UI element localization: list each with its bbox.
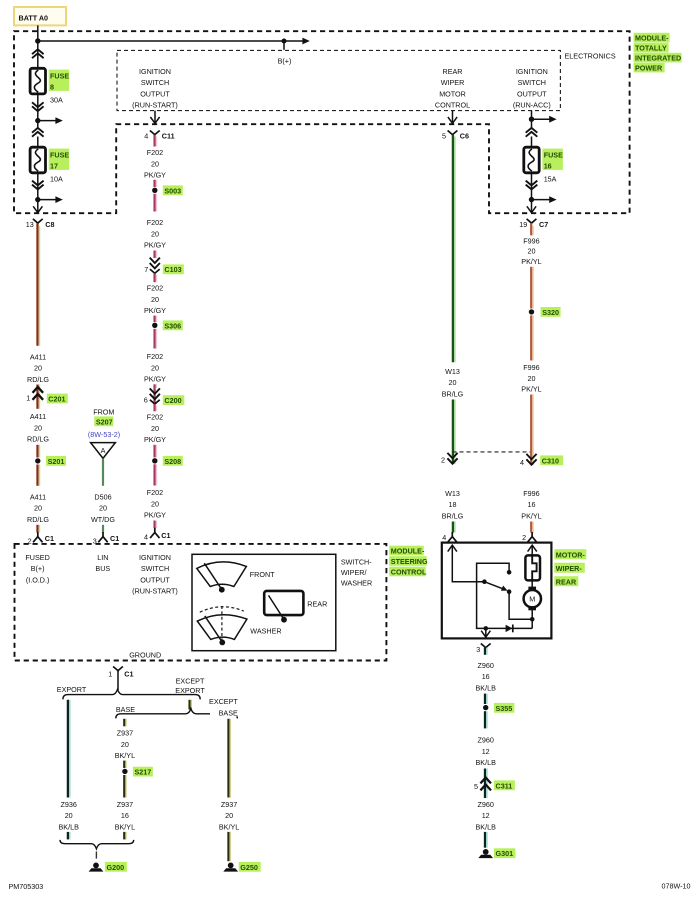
wire fuse 16 branch right bbox=[532, 199, 550, 201]
connector C11 bbox=[150, 131, 175, 141]
wire fuse 17 feed bbox=[37, 137, 39, 149]
wire W13 to motor pin 4 bbox=[453, 522, 455, 533]
wire Z937 except-export drop bbox=[190, 700, 192, 710]
svg-text:B(+): B(+) bbox=[31, 564, 45, 573]
wire fuse 16 output bbox=[531, 173, 533, 214]
svg-text:RD/LG: RD/LG bbox=[27, 435, 49, 444]
arrow motor pin 2 entry bbox=[528, 545, 537, 551]
wire fuse 8 output bbox=[37, 94, 39, 129]
svg-text:IGNITION: IGNITION bbox=[516, 67, 548, 76]
connector C8 bbox=[33, 219, 55, 229]
wire D506 WT/DG bbox=[102, 458, 104, 485]
svg-text:REAR: REAR bbox=[443, 67, 463, 76]
svg-text:20: 20 bbox=[34, 423, 42, 432]
wire Z937 base leg upper bbox=[124, 719, 126, 727]
wire Z936 stub to brace bbox=[68, 832, 70, 840]
svg-text:OUTPUT: OUTPUT bbox=[140, 575, 170, 584]
connector C310 chevrons on W13 pin 2 bbox=[447, 453, 457, 464]
svg-text:G200: G200 bbox=[107, 863, 125, 872]
wire diode to motor junction bbox=[531, 610, 533, 628]
wire from BATT A0 bbox=[37, 25, 39, 49]
wire F996 PK/YL upper bbox=[531, 223, 533, 235]
svg-text:BR/LG: BR/LG bbox=[442, 511, 464, 520]
wire lower contact to motor junction bbox=[509, 592, 532, 620]
wire label D506 20 WT/DG bbox=[91, 492, 115, 524]
svg-text:(RUN-ACC): (RUN-ACC) bbox=[513, 101, 551, 110]
label REAR WIPER MOTOR CONTROL bbox=[435, 67, 470, 110]
connector chevrons above fuse 16 bbox=[526, 128, 538, 137]
svg-text:Z936: Z936 bbox=[61, 800, 77, 809]
svg-text:INTEGRATED: INTEGRATED bbox=[635, 53, 681, 62]
wire label A411 20 RD/LG bbox=[27, 352, 49, 384]
connector C310 dashed halves line bbox=[453, 451, 532, 453]
pin label LIN BUS bbox=[95, 553, 110, 573]
svg-text:WIPER/: WIPER/ bbox=[341, 568, 367, 577]
svg-text:20: 20 bbox=[121, 740, 129, 749]
wire Z937 except-base leg bbox=[229, 719, 231, 798]
svg-text:OUTPUT: OUTPUT bbox=[140, 90, 170, 99]
svg-text:F202: F202 bbox=[147, 488, 163, 497]
module label MODULE-TOTALLY INTEGRATED POWER bbox=[634, 33, 682, 73]
svg-text:ELECTRONICS: ELECTRONICS bbox=[565, 52, 616, 61]
wire A411 to splice bbox=[38, 445, 40, 458]
svg-text:30A: 30A bbox=[50, 95, 63, 104]
connector motor pin 3 bbox=[481, 644, 491, 648]
arrow motor pin 4 entry bbox=[448, 545, 457, 551]
wire thermal element to motor bbox=[531, 580, 533, 587]
svg-text:4: 4 bbox=[442, 533, 446, 542]
wire F996 to motor pin 2 bbox=[531, 522, 533, 533]
wire upper contact to ground branch bbox=[477, 563, 510, 628]
thermal protector element bbox=[525, 555, 540, 580]
svg-text:18: 18 bbox=[449, 500, 457, 509]
ground G301 bbox=[478, 848, 515, 858]
wire label Z960 16 BK/LB bbox=[476, 661, 497, 693]
splice S355 bbox=[483, 703, 514, 713]
svg-text:W13: W13 bbox=[445, 489, 460, 498]
svg-text:PK/GY: PK/GY bbox=[144, 435, 166, 444]
svg-text:BATT A0: BATT A0 bbox=[19, 14, 49, 23]
svg-text:1: 1 bbox=[108, 669, 112, 678]
wire Z937 below S217 bbox=[124, 775, 126, 798]
svg-text:F996: F996 bbox=[523, 489, 539, 498]
wire W13 BR/LG upper bbox=[453, 135, 455, 362]
svg-text:S003: S003 bbox=[164, 186, 181, 195]
svg-text:S217: S217 bbox=[135, 768, 152, 777]
node switch contact upper bbox=[507, 570, 512, 575]
wire label W13 18 BR/LG bbox=[442, 489, 464, 521]
splice S320 bbox=[529, 307, 561, 317]
svg-text:D506: D506 bbox=[94, 492, 111, 501]
svg-text:SWITCH-: SWITCH- bbox=[341, 557, 372, 566]
wire label F996 16 PK/YL bbox=[521, 489, 541, 521]
label FROM S207 bbox=[88, 407, 120, 439]
wire F202 below C200 bbox=[155, 404, 157, 411]
wire Z937 to ground G250 bbox=[229, 832, 231, 861]
wire F202 to splice S306 bbox=[155, 316, 157, 322]
arrow B(+) bus continuation bbox=[302, 38, 309, 45]
arrow module exit pin 13 bbox=[33, 206, 42, 212]
svg-text:EXPORT: EXPORT bbox=[175, 686, 205, 695]
wire label F202 20 PK/GY 2 bbox=[144, 218, 166, 250]
wire label Z960 12 BK/LB mid bbox=[476, 736, 497, 768]
svg-text:RD/LG: RD/LG bbox=[27, 515, 49, 524]
washer icon spray arc (dashed) bbox=[200, 607, 244, 612]
svg-text:SWITCH: SWITCH bbox=[141, 564, 169, 573]
inner electronics dashed box bbox=[117, 50, 560, 110]
label EXCEPT EXPORT bbox=[175, 676, 205, 695]
module label MOTOR-WIPER-REAR bbox=[554, 549, 586, 586]
svg-text:C311: C311 bbox=[496, 781, 513, 790]
svg-text:BK/LB: BK/LB bbox=[476, 758, 497, 767]
svg-text:Z960: Z960 bbox=[478, 800, 494, 809]
connector chevrons below fuse 16 bbox=[526, 181, 538, 190]
node ground branch junction bbox=[484, 626, 489, 631]
wire Z960 to splice S355 bbox=[485, 694, 487, 704]
svg-text:S355: S355 bbox=[496, 704, 513, 713]
svg-text:2: 2 bbox=[441, 455, 445, 464]
svg-text:(8W-53-2): (8W-53-2) bbox=[88, 430, 120, 439]
wire F202 into C200 bbox=[155, 384, 157, 404]
svg-text:16: 16 bbox=[121, 811, 129, 820]
arrow run-acc branch bbox=[549, 116, 556, 123]
svg-text:C1: C1 bbox=[161, 531, 170, 540]
wire run-acc branch right bbox=[532, 118, 550, 120]
svg-text:GROUND: GROUND bbox=[129, 650, 161, 659]
svg-text:FUSE: FUSE bbox=[50, 150, 69, 159]
wire label F996 20 PK/YL 2 bbox=[521, 363, 541, 394]
svg-text:20: 20 bbox=[34, 504, 42, 513]
svg-text:4: 4 bbox=[520, 458, 524, 467]
svg-text:C7: C7 bbox=[539, 220, 548, 229]
svg-text:WIPER: WIPER bbox=[441, 78, 465, 87]
svg-text:A411: A411 bbox=[30, 492, 46, 501]
svg-text:PM705303: PM705303 bbox=[9, 882, 44, 891]
svg-text:S201: S201 bbox=[48, 457, 65, 466]
svg-text:BUS: BUS bbox=[95, 564, 110, 573]
svg-text:C8: C8 bbox=[45, 220, 54, 229]
svg-text:POWER: POWER bbox=[635, 63, 663, 72]
svg-text:CONTROL: CONTROL bbox=[435, 101, 470, 110]
svg-text:REAR: REAR bbox=[307, 599, 327, 608]
label EXCEPT BASE (with mask over brace end) bbox=[209, 697, 238, 717]
module box - totally integrated power (dashed outline with notch) bbox=[14, 31, 630, 213]
wire A411 through C201 bbox=[38, 385, 40, 409]
svg-text:20: 20 bbox=[528, 374, 536, 383]
label IGNITION SWITCH OUTPUT (RUN-ACC) bbox=[513, 67, 551, 110]
svg-text:B(+): B(+) bbox=[278, 56, 292, 65]
svg-text:5: 5 bbox=[442, 131, 446, 140]
svg-text:MODULE-: MODULE- bbox=[391, 546, 425, 555]
connector label C311 bbox=[494, 780, 515, 790]
connector C311 chevrons bbox=[480, 778, 491, 791]
wire label Z936 20 BK/LB bbox=[59, 800, 80, 832]
svg-text:16: 16 bbox=[528, 500, 536, 509]
pin label FUSED B(+) (I.O.D.) bbox=[25, 553, 49, 585]
connector C6 bbox=[448, 131, 469, 141]
arrow module exit pin 19 bbox=[527, 206, 536, 212]
wire branch right bbox=[38, 120, 56, 122]
svg-text:20: 20 bbox=[151, 295, 159, 304]
wire label Z937 16 BK/YL bbox=[115, 800, 135, 832]
svg-text:IGNITION: IGNITION bbox=[139, 553, 171, 562]
arrow branch right bbox=[55, 117, 62, 124]
svg-text:BK/YL: BK/YL bbox=[115, 823, 135, 832]
wire fuse 16 feed bbox=[531, 137, 533, 149]
wire ground branch exit bbox=[485, 628, 487, 637]
svg-text:FROM: FROM bbox=[93, 407, 114, 416]
wire label Z937 20 BK/YL except-base bbox=[219, 800, 239, 832]
connector chevrons below fuse 17 bbox=[32, 181, 44, 190]
label SWITCH-WIPER/WASHER bbox=[341, 557, 372, 587]
svg-text:(RUN-START): (RUN-START) bbox=[132, 101, 178, 110]
node motor bottom junction bbox=[530, 617, 535, 622]
svg-text:EXCEPT: EXCEPT bbox=[176, 676, 205, 685]
front wiper icon bbox=[197, 562, 247, 593]
rear wiper icon bbox=[264, 591, 303, 623]
svg-text:PK/GY: PK/GY bbox=[144, 306, 166, 315]
pin label IGNITION SWITCH OUTPUT (RUN-START) bbox=[132, 553, 178, 596]
svg-text:WASHER: WASHER bbox=[250, 627, 281, 636]
svg-text:SWITCH: SWITCH bbox=[141, 78, 169, 87]
svg-text:2: 2 bbox=[522, 533, 526, 542]
svg-text:BK/YL: BK/YL bbox=[219, 823, 239, 832]
connector C200 socket bbox=[150, 400, 160, 404]
wire Z960 BK/LB from motor bbox=[485, 648, 487, 655]
brace base/except-base split bbox=[116, 709, 238, 719]
svg-text:3: 3 bbox=[476, 645, 480, 654]
wire branch right lower bbox=[38, 199, 56, 201]
arrow fuse 16 branch bbox=[549, 196, 556, 203]
svg-text:PK/GY: PK/GY bbox=[144, 375, 166, 384]
svg-text:STEERING: STEERING bbox=[391, 557, 428, 566]
connector C310 chevrons on F996 pin 4 bbox=[526, 454, 536, 465]
svg-text:F996: F996 bbox=[523, 363, 539, 372]
node fuse 16 branch bbox=[529, 197, 534, 202]
node B(+) label tap bbox=[282, 39, 287, 44]
wire F202 below S003 bbox=[155, 194, 157, 212]
node run-acc branch bbox=[529, 117, 534, 122]
svg-text:S306: S306 bbox=[164, 321, 181, 330]
svg-text:PK/GY: PK/GY bbox=[144, 171, 166, 180]
svg-text:Z960: Z960 bbox=[478, 661, 494, 670]
svg-text:(I.O.D.): (I.O.D.) bbox=[26, 575, 50, 584]
wire F202 below C103 bbox=[155, 273, 157, 282]
connector C103 chevrons bbox=[150, 258, 160, 269]
svg-text:F996: F996 bbox=[523, 236, 539, 245]
splice S003 bbox=[152, 185, 183, 195]
wire F202 into C103 bbox=[155, 251, 157, 259]
svg-text:C1: C1 bbox=[110, 534, 119, 543]
connector label C201 bbox=[47, 394, 68, 404]
svg-text:Z937: Z937 bbox=[117, 729, 133, 738]
svg-text:17: 17 bbox=[50, 162, 58, 171]
fuse 8 bbox=[30, 68, 45, 94]
svg-text:LIN: LIN bbox=[97, 553, 108, 562]
wire run-acc output stub bbox=[531, 111, 533, 129]
svg-text:WASHER: WASHER bbox=[341, 578, 372, 587]
svg-text:EXPORT: EXPORT bbox=[57, 685, 87, 694]
wire B(+) bus bbox=[38, 40, 303, 42]
fuse 17 bbox=[30, 147, 45, 173]
splice S306 bbox=[152, 320, 183, 330]
node switch pivot bbox=[482, 579, 487, 584]
fuse 16 value label bbox=[542, 149, 563, 184]
svg-text:WT/DG: WT/DG bbox=[91, 515, 115, 524]
wire fuse 8 feed bbox=[37, 49, 39, 69]
washer wiper icon bbox=[197, 615, 247, 646]
svg-text:20: 20 bbox=[151, 499, 159, 508]
connector label C103 bbox=[163, 264, 184, 274]
connector C1 pin 3 bbox=[93, 532, 119, 545]
connector label C200 bbox=[163, 395, 185, 405]
svg-text:OUTPUT: OUTPUT bbox=[517, 90, 547, 99]
svg-text:IGNITION: IGNITION bbox=[139, 67, 171, 76]
wire run-start output to C11 bbox=[154, 111, 156, 124]
wire Z960 through C311 bbox=[485, 769, 487, 799]
svg-text:20: 20 bbox=[528, 247, 536, 256]
wire label F202 20 PK/GY 1 bbox=[144, 148, 166, 180]
washer icon dashed center line bbox=[221, 606, 223, 640]
svg-text:FUSE: FUSE bbox=[50, 71, 69, 80]
node at B(+) bus tap bbox=[35, 38, 40, 43]
wire C1 ground stem bbox=[117, 671, 119, 691]
svg-text:C1: C1 bbox=[124, 669, 133, 678]
svg-text:8: 8 bbox=[50, 83, 54, 92]
svg-text:FUSED: FUSED bbox=[25, 553, 49, 562]
connector C1 pin 4 bbox=[144, 528, 171, 542]
svg-text:PK/YL: PK/YL bbox=[521, 511, 541, 520]
svg-text:Z960: Z960 bbox=[478, 736, 494, 745]
svg-text:20: 20 bbox=[225, 811, 233, 820]
arrow into C6 bbox=[448, 117, 457, 123]
arrow motor pin 3 exit bbox=[481, 631, 490, 637]
wire Z937 stub to brace bbox=[124, 832, 126, 840]
connector C201 chevrons bbox=[33, 387, 44, 400]
svg-text:C200: C200 bbox=[164, 396, 181, 405]
svg-text:MOTOR-: MOTOR- bbox=[556, 550, 586, 559]
svg-text:F202: F202 bbox=[147, 352, 163, 361]
diode bbox=[506, 625, 513, 633]
svg-text:TOTALLY: TOTALLY bbox=[635, 43, 667, 52]
wire F202 to splice S003 bbox=[155, 180, 157, 187]
svg-text:C1: C1 bbox=[45, 534, 54, 543]
svg-text:REAR: REAR bbox=[556, 577, 577, 586]
svg-text:(RUN-START): (RUN-START) bbox=[132, 587, 178, 596]
fuse 17 value label bbox=[49, 149, 70, 184]
svg-text:BASE: BASE bbox=[116, 705, 135, 714]
svg-text:16: 16 bbox=[544, 162, 552, 171]
wire D506 to C1 bbox=[102, 525, 104, 533]
ground G250 bbox=[223, 862, 260, 872]
svg-text:Z937: Z937 bbox=[221, 800, 237, 809]
svg-text:W13: W13 bbox=[445, 367, 460, 376]
connector chevrons below fuse 8 bbox=[32, 102, 44, 111]
svg-text:G250: G250 bbox=[240, 863, 258, 872]
wire W13 into C310 bbox=[453, 400, 455, 464]
svg-text:19: 19 bbox=[519, 220, 527, 229]
svg-text:C103: C103 bbox=[164, 265, 181, 274]
svg-text:SWITCH: SWITCH bbox=[518, 78, 546, 87]
arrow branch right lower bbox=[55, 196, 62, 203]
svg-text:G301: G301 bbox=[496, 849, 514, 858]
wire label F996 20 PK/YL 1 bbox=[521, 236, 541, 266]
svg-text:1: 1 bbox=[26, 394, 30, 403]
svg-text:C11: C11 bbox=[162, 131, 175, 140]
svg-text:F202: F202 bbox=[147, 284, 163, 293]
node switch contact lower bbox=[507, 589, 512, 594]
wire rear wiper motor control to C6 bbox=[452, 111, 454, 124]
off-page reference triangle A from S207 bbox=[91, 443, 116, 459]
svg-text:12: 12 bbox=[482, 747, 490, 756]
connector C1 ground pin bbox=[113, 667, 133, 679]
ground G200 bbox=[89, 862, 127, 872]
connector C103 socket bbox=[150, 269, 160, 273]
splice S217 bbox=[122, 767, 153, 777]
wire Z960 below S355 bbox=[485, 711, 487, 728]
svg-text:MODULE-: MODULE- bbox=[635, 33, 669, 42]
connector C1 pin 2 bbox=[28, 532, 54, 545]
svg-text:PK/GY: PK/GY bbox=[144, 511, 166, 520]
svg-text:C201: C201 bbox=[48, 394, 65, 403]
svg-text:RD/LG: RD/LG bbox=[27, 375, 49, 384]
wire label Z960 12 BK/LB lower bbox=[476, 800, 497, 832]
svg-text:BR/LG: BR/LG bbox=[442, 390, 464, 399]
wire F202 below S306 bbox=[155, 329, 157, 349]
motor-wiper-rear box bbox=[442, 543, 552, 639]
svg-text:S320: S320 bbox=[542, 308, 559, 317]
svg-text:BK/YL: BK/YL bbox=[115, 751, 135, 760]
svg-text:EXCEPT: EXCEPT bbox=[209, 697, 238, 706]
svg-text:FUSE: FUSE bbox=[544, 150, 563, 159]
svg-text:20: 20 bbox=[99, 504, 107, 513]
fuse 16 bbox=[524, 147, 539, 173]
svg-text:20: 20 bbox=[34, 364, 42, 373]
wire F996 below S320 bbox=[531, 315, 533, 360]
wire label F202 20 PK/GY 3 bbox=[144, 284, 166, 316]
svg-text:WIPER-: WIPER- bbox=[556, 564, 583, 573]
connector C7 bbox=[527, 219, 549, 229]
wire Z960 to ground bbox=[485, 832, 487, 848]
svg-text:5: 5 bbox=[474, 782, 478, 791]
wire label A411 20 RD/LG lower bbox=[27, 492, 49, 524]
svg-text:4: 4 bbox=[144, 533, 148, 542]
svg-text:15A: 15A bbox=[544, 174, 557, 183]
battery feed label box BATT A0 bbox=[14, 7, 66, 25]
svg-text:S208: S208 bbox=[164, 457, 181, 466]
wire pin 2 to thermal element bbox=[531, 545, 533, 556]
wire A411 RD/LG upper bbox=[38, 223, 40, 346]
connector chevrons above fuse 17 bbox=[32, 128, 44, 137]
svg-text:20: 20 bbox=[151, 159, 159, 168]
connector motor pin 4 bbox=[442, 532, 457, 542]
svg-text:BASE: BASE bbox=[219, 708, 238, 717]
wire label F202 20 PK/GY 5 bbox=[144, 413, 166, 445]
wire label Z937 20 BK/YL base bbox=[115, 729, 135, 761]
node fuse 17 branch bbox=[35, 197, 40, 202]
motor M bbox=[524, 587, 541, 611]
connector C200 chevrons bbox=[150, 388, 160, 399]
switch-wiper/washer inner box bbox=[192, 554, 336, 650]
connector label C310 bbox=[540, 455, 563, 465]
wire F202 PK/GY from C11 bbox=[155, 135, 157, 147]
svg-text:A: A bbox=[101, 446, 106, 455]
svg-text:S207: S207 bbox=[96, 417, 113, 426]
svg-text:Z937: Z937 bbox=[117, 800, 133, 809]
svg-text:CONTROL: CONTROL bbox=[391, 567, 427, 576]
svg-text:20: 20 bbox=[151, 424, 159, 433]
svg-text:20: 20 bbox=[151, 229, 159, 238]
